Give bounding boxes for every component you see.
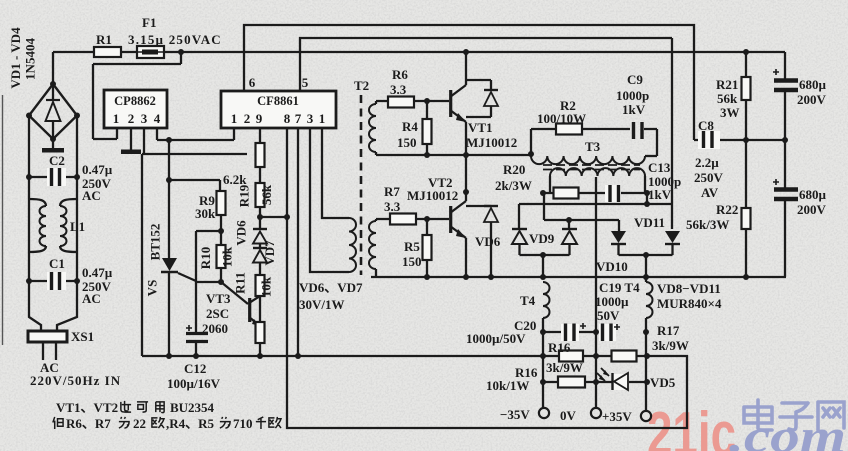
svg-text:0.47µ: 0.47µ — [82, 162, 113, 177]
svg-text:56k: 56k — [717, 91, 738, 106]
wire y193 snubber — [543, 192, 647, 194]
svg-text:R20: R20 — [503, 162, 525, 177]
capacitor C12 — [195, 282, 197, 332]
wire pin1 to T2 — [322, 128, 349, 218]
transformer T2 core dashed — [360, 95, 363, 275]
svg-text:VD8−VD11: VD8−VD11 — [657, 281, 721, 296]
svg-text:5: 5 — [302, 75, 309, 90]
svg-text:3k/9W: 3k/9W — [652, 338, 689, 353]
svg-text:1: 1 — [231, 111, 238, 126]
svg-text:3k/9W: 3k/9W — [546, 360, 583, 375]
svg-text:C13: C13 — [648, 160, 671, 175]
node R9 bottom — [218, 228, 224, 234]
resistor R17 — [612, 351, 637, 362]
wire VD10 VD11 join — [619, 254, 673, 256]
svg-text:2k/3W: 2k/3W — [495, 178, 532, 193]
svg-text:C2: C2 — [49, 153, 65, 168]
svg-text:+35V: +35V — [602, 409, 632, 424]
wire VD8 VD9 join — [520, 254, 570, 256]
resistor R11 — [256, 275, 265, 296]
svg-text:XS1: XS1 — [71, 329, 94, 344]
resistor R7 — [390, 214, 416, 225]
svg-text:21ic: 21ic — [647, 400, 736, 451]
svg-text:VD1 - VD4: VD1 - VD4 — [8, 27, 23, 89]
svg-text:2: 2 — [128, 111, 135, 126]
svg-text:R19: R19 — [237, 184, 252, 207]
svg-text:R11: R11 — [233, 272, 248, 294]
wire bridge right leg — [57, 116, 77, 332]
capacitor C8 — [694, 139, 785, 141]
svg-text:3: 3 — [307, 111, 314, 126]
svg-text:C8: C8 — [698, 118, 714, 133]
svg-text:VD10: VD10 — [596, 259, 628, 274]
wire CP8862 pin4 to CF8861 pin1 — [157, 128, 234, 140]
svg-text:VD7: VD7 — [262, 240, 277, 266]
wire T2 to VT2 base — [376, 218, 449, 220]
wire bridge left leg — [29, 116, 41, 332]
capacitor C13 — [605, 185, 621, 202]
svg-text:R17: R17 — [657, 323, 680, 338]
wire R2 branch — [530, 129, 532, 155]
wire T2 to VT1 base — [376, 100, 449, 102]
svg-text:6: 6 — [249, 75, 256, 90]
terminal 0V — [591, 408, 601, 418]
diode VD10 — [611, 231, 626, 243]
svg-text:VS: VS — [145, 280, 160, 297]
svg-text:56k: 56k — [259, 184, 274, 205]
svg-text:VT1、VT2: VT1、VT2 — [56, 400, 118, 415]
svg-text:220V/50Hz IN: 220V/50Hz IN — [30, 373, 121, 388]
svg-text:8: 8 — [284, 111, 291, 126]
svg-text:9: 9 — [256, 111, 263, 126]
wire C13 to y204 — [646, 193, 648, 204]
diode VD7 — [259, 244, 261, 248]
svg-text:C12: C12 — [184, 361, 206, 376]
svg-text:710: 710 — [233, 416, 253, 431]
wire y204 — [519, 203, 672, 205]
svg-text:3.3: 3.3 — [384, 199, 401, 214]
wire to R9 — [169, 180, 220, 191]
svg-text:10k/1W: 10k/1W — [486, 378, 529, 393]
svg-text:VD9: VD9 — [529, 231, 555, 246]
terminal +35V — [641, 411, 651, 421]
svg-text:VD6: VD6 — [234, 220, 249, 246]
svg-text:CF8861: CF8861 — [257, 94, 299, 108]
wire pin9 column — [259, 128, 261, 217]
wire CP8862 pin3 — [143, 128, 145, 154]
node x169 on y140 — [166, 137, 172, 143]
resistor R1 — [94, 47, 121, 57]
wire y220 — [543, 193, 545, 220]
fuse F1 — [137, 46, 164, 58]
transformer T2 upper winding — [375, 101, 377, 104]
svg-text:1kV: 1kV — [648, 187, 672, 202]
transformer T2 drive winding — [349, 218, 356, 272]
wire center tap — [595, 177, 597, 408]
svg-text:R6: R6 — [392, 67, 408, 82]
svg-text:R4: R4 — [402, 119, 418, 134]
svg-text:MJ10012: MJ10012 — [466, 135, 517, 150]
node fuse output — [178, 49, 184, 55]
bridge rectifier VD1-VD4 — [29, 84, 77, 139]
transformer T4 left winding — [543, 282, 550, 318]
resistor R10 — [217, 245, 226, 268]
svg-text:7: 7 — [295, 111, 302, 126]
svg-text:10k: 10k — [220, 246, 235, 267]
led VD5 — [613, 374, 629, 390]
node rail R21 — [743, 49, 749, 55]
wire y155 — [376, 154, 531, 156]
svg-text:1: 1 — [319, 111, 326, 126]
svg-text:200V: 200V — [797, 202, 827, 217]
ground bar bridge — [52, 139, 54, 148]
svg-text:T4: T4 — [520, 293, 536, 308]
svg-text:2060: 2060 — [202, 321, 228, 336]
svg-text:0V: 0V — [560, 408, 577, 423]
svg-text:L1: L1 — [70, 219, 85, 234]
resistor R16 10k1W — [558, 377, 585, 388]
svg-text:VD11: VD11 — [634, 215, 665, 230]
svg-text:56k/3W: 56k/3W — [686, 217, 729, 232]
inductor L1 right — [60, 199, 77, 206]
scan edge artifact — [2, 95, 4, 345]
wire bridge top lead — [52, 52, 54, 84]
svg-text:AC: AC — [82, 291, 101, 306]
svg-text:250V: 250V — [694, 170, 724, 185]
svg-text:2.2µ: 2.2µ — [695, 155, 719, 170]
wire CF8861 pin6 rail — [244, 25, 694, 140]
capacitor 680u top — [784, 52, 786, 79]
svg-text:680µ: 680µ — [799, 77, 827, 92]
svg-text:1000µ/50V: 1000µ/50V — [466, 331, 526, 346]
svg-text:R7: R7 — [384, 184, 400, 199]
svg-text:T2: T2 — [354, 78, 369, 93]
svg-text:22: 22 — [133, 416, 146, 431]
transformer T3 core — [543, 165, 640, 170]
resistor R6 — [388, 97, 414, 108]
svg-text:F1: F1 — [142, 15, 156, 30]
wire pin3 to T2 — [310, 128, 349, 272]
transformer T3 secondary — [550, 168, 645, 176]
capacitor C2 — [29, 176, 77, 178]
capacitor C9 — [632, 122, 635, 139]
wire row y356 rail — [142, 355, 647, 357]
wire secondary ends — [549, 176, 551, 193]
capacitor C1 — [29, 280, 77, 282]
svg-text:30k: 30k — [195, 206, 216, 221]
diode VD9 — [562, 228, 577, 230]
node R6 out — [424, 98, 430, 104]
svg-text:CP8862: CP8862 — [114, 94, 156, 108]
transistor VT3 2SC2060 — [221, 282, 248, 304]
resistor 6.2k — [256, 143, 265, 167]
svg-text:−35V: −35V — [500, 407, 530, 422]
resistor R2 — [556, 124, 582, 135]
svg-text:3: 3 — [141, 111, 148, 126]
svg-text:1000p: 1000p — [616, 88, 649, 103]
svg-text:MJ10012: MJ10012 — [407, 188, 458, 203]
svg-text:AV: AV — [701, 185, 719, 200]
diode damper VT1 — [466, 80, 491, 90]
svg-text:0.47µ: 0.47µ — [82, 265, 113, 280]
node R7 out — [424, 216, 430, 222]
socket XS1 — [28, 331, 67, 342]
transistor VT2 MJ10012 — [449, 206, 452, 233]
IC CF8861 — [221, 91, 336, 128]
transistor VT1 MJ10012 — [449, 90, 452, 117]
svg-text:R6、R7: R6、R7 — [66, 416, 111, 431]
wire row y382 — [543, 381, 647, 383]
svg-text:150: 150 — [402, 254, 422, 269]
capacitor 680u bottom — [774, 187, 798, 192]
wire CP8862 pin1 — [93, 128, 117, 139]
svg-text:10k: 10k — [259, 276, 274, 297]
svg-text:100/10W: 100/10W — [537, 111, 586, 126]
resistor below VT3 — [256, 322, 265, 343]
svg-text:R1: R1 — [96, 32, 112, 47]
svg-text:200V: 200V — [797, 92, 827, 107]
transformer T4 right winding — [646, 282, 653, 318]
svg-text:30V/1W: 30V/1W — [299, 297, 345, 312]
svg-text:VT3: VT3 — [206, 291, 231, 306]
wire main rail y52 — [53, 51, 785, 53]
svg-text:R16: R16 — [548, 340, 571, 355]
wire pin7 — [297, 128, 299, 356]
svg-text:AC: AC — [82, 188, 101, 203]
resistor R19 — [256, 183, 265, 207]
svg-text:VT1: VT1 — [468, 120, 493, 135]
terminal -35V — [539, 408, 549, 418]
transformer T2 lower winding — [375, 219, 377, 221]
svg-text:,R4、R5: ,R4、R5 — [166, 416, 215, 431]
diode VD11 — [665, 231, 680, 243]
svg-text:R22: R22 — [716, 202, 738, 217]
svg-text:3W: 3W — [720, 105, 740, 120]
wire net y154 — [142, 153, 247, 155]
wire left drop x142 — [141, 154, 143, 356]
svg-text:6.2k: 6.2k — [223, 172, 247, 187]
svg-text:1N5404: 1N5404 — [23, 38, 38, 80]
svg-text:50V: 50V — [597, 308, 620, 323]
svg-text:VD6: VD6 — [475, 234, 501, 249]
svg-text:680µ: 680µ — [799, 187, 827, 202]
svg-text:MUR840×4: MUR840×4 — [657, 296, 722, 311]
svg-text:C9: C9 — [627, 72, 643, 87]
inductor L1 left — [29, 199, 46, 206]
IC CP8862 — [104, 90, 167, 128]
svg-text:T3: T3 — [585, 139, 601, 154]
node T3 primary left — [528, 151, 534, 157]
svg-text:R5: R5 — [404, 239, 420, 254]
svg-text:VD5: VD5 — [650, 375, 676, 390]
svg-text:1: 1 — [113, 111, 120, 126]
resistor R9 — [220, 215, 222, 245]
resistor R16 3k9W — [559, 351, 583, 362]
svg-text:3.3: 3.3 — [390, 82, 407, 97]
wire rail y277 — [371, 276, 786, 278]
wire CF8861 pin5 rail — [300, 38, 672, 91]
svg-text:BU2354: BU2354 — [170, 400, 215, 415]
thyristor VS BT152 — [162, 258, 177, 271]
svg-text:150: 150 — [397, 135, 417, 150]
svg-text:1kV: 1kV — [622, 102, 646, 117]
wire x196 — [195, 231, 197, 282]
wire R19 to pin8 — [260, 216, 287, 218]
svg-text:VD6、VD7: VD6、VD7 — [299, 280, 363, 295]
wire x169 branch — [168, 140, 170, 180]
resistor R20 — [554, 188, 579, 199]
resistor R21 — [745, 52, 747, 77]
svg-text:R21: R21 — [716, 77, 738, 92]
diode damper VT2 (VD6) — [466, 205, 491, 207]
wire CP8862 pin2 — [130, 128, 132, 150]
transformer T3 primary — [531, 156, 645, 164]
resistor R4 — [426, 101, 428, 155]
resistor R22 — [745, 140, 747, 208]
svg-text:100µ/16V: 100µ/16V — [167, 376, 221, 391]
svg-text:3.15µ 250VAC: 3.15µ 250VAC — [128, 32, 222, 47]
ground chassis bar — [121, 150, 141, 155]
svg-text:4: 4 — [154, 111, 161, 126]
resistor R5 — [426, 219, 428, 277]
wire pin8 long loop — [287, 128, 687, 428]
svg-text:BT152: BT152 — [148, 224, 163, 261]
wire x672 sense line — [671, 38, 673, 229]
diode VD6 — [259, 217, 261, 229]
svg-text:R10: R10 — [198, 247, 213, 269]
svg-text:1000µ: 1000µ — [595, 294, 629, 309]
caption line2 — [53, 417, 63, 429]
svg-text:C19 T4: C19 T4 — [599, 280, 640, 295]
svg-text:C1: C1 — [49, 256, 65, 271]
diode VD8 — [512, 228, 527, 230]
svg-text:2SC: 2SC — [206, 306, 229, 321]
svg-text:2: 2 — [244, 111, 251, 126]
capacitor C20 — [543, 331, 596, 333]
capacitor C19 — [599, 324, 616, 341]
